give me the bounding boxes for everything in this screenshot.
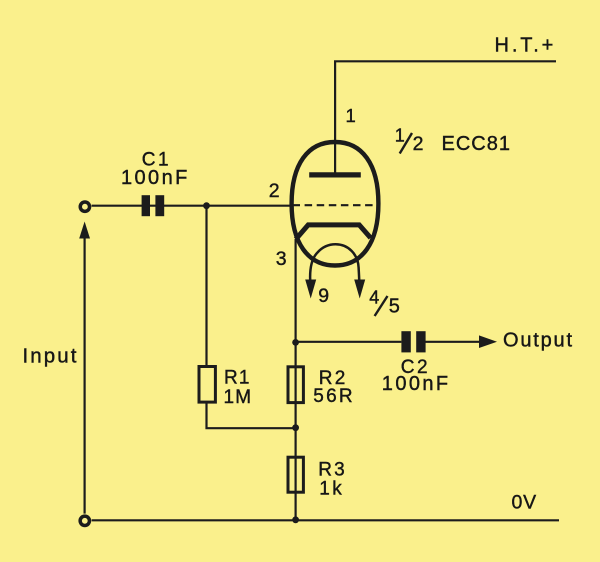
svg-text:Output: Output [503, 330, 574, 352]
svg-text:1k: 1k [319, 479, 344, 500]
node R2/R3 junction [292, 424, 299, 431]
capacitor C2 [401, 331, 425, 352]
terminal 0V [80, 516, 89, 525]
node grid junction [203, 202, 210, 209]
svg-text:Input: Input [23, 345, 79, 368]
svg-text:1: 1 [346, 105, 356, 126]
svg-text:H.T.+: H.T.+ [495, 35, 557, 57]
wire H.T. rail horizontal [334, 60, 556, 62]
heater arrow pins 4/5 [354, 280, 365, 299]
terminal input [80, 202, 89, 211]
svg-text:1M: 1M [224, 387, 253, 408]
pin 4/5 fraction [369, 288, 400, 318]
svg-text:9: 9 [318, 285, 329, 307]
svg-text:4: 4 [369, 288, 379, 308]
wire grid lead from input node to tube (pin 2) [92, 205, 292, 207]
wire anode lead from H.T. rail down to anode (pin 1) [334, 61, 336, 172]
input arrow [79, 222, 90, 239]
heater filament dome [310, 244, 359, 286]
wire R1 branch vertical from grid node [205, 206, 207, 367]
label 1/2 ECC81 [395, 126, 511, 156]
cathode [296, 225, 371, 239]
resistor R3 [288, 457, 303, 492]
wire input rail vertical [83, 228, 85, 514]
wire cathode rail vertical (pin 3 down through R2 R3 to 0V) [295, 239, 297, 519]
svg-text:56R: 56R [313, 386, 354, 407]
anode plate [309, 172, 361, 177]
wire output lead from cathode node to C2 [296, 341, 402, 343]
svg-text:5: 5 [389, 295, 400, 317]
svg-text:100nF: 100nF [382, 373, 451, 395]
svg-text:0V: 0V [512, 492, 537, 514]
heater arrow pin 9 [305, 280, 316, 299]
resistor R1 [199, 367, 215, 403]
svg-text:2: 2 [269, 180, 280, 202]
svg-text:100nF: 100nF [121, 167, 190, 189]
tube envelope U1 [292, 142, 379, 266]
wire C2 to output arrow [426, 341, 482, 343]
capacitor C1 [142, 195, 165, 216]
resistor R2 [288, 367, 303, 403]
svg-text:1: 1 [395, 126, 405, 146]
grid (dashed) [293, 204, 378, 206]
wire 0V rail horizontal [92, 519, 559, 521]
svg-text:R1: R1 [224, 368, 251, 389]
svg-text:ECC81: ECC81 [442, 133, 511, 155]
node 0V junction [292, 516, 299, 523]
node output junction [292, 339, 299, 346]
svg-text:2: 2 [413, 133, 424, 155]
wire R1 bottom to cathode node [207, 402, 296, 428]
output arrow [479, 335, 497, 348]
svg-text:3: 3 [276, 248, 287, 270]
svg-text:R3: R3 [318, 460, 347, 481]
